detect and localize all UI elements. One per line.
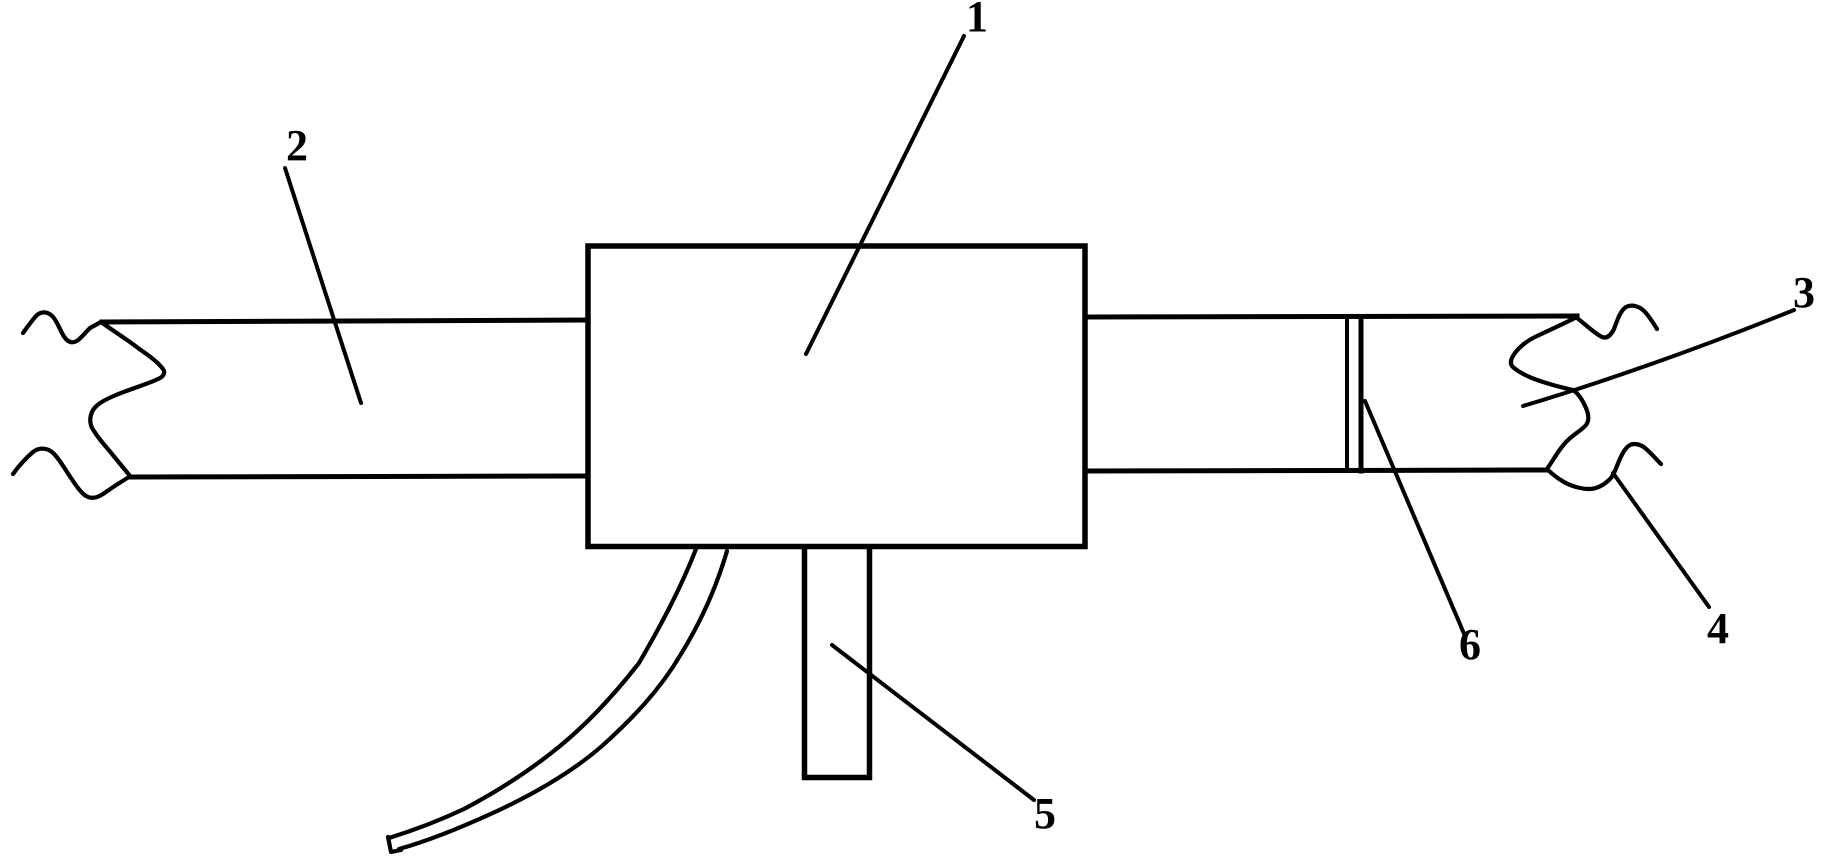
svg-text:1: 1 bbox=[966, 0, 988, 41]
svg-text:2: 2 bbox=[286, 121, 308, 170]
svg-text:6: 6 bbox=[1459, 620, 1481, 669]
svg-text:5: 5 bbox=[1034, 789, 1056, 838]
svg-text:4: 4 bbox=[1707, 604, 1729, 653]
svg-text:3: 3 bbox=[1793, 268, 1815, 317]
